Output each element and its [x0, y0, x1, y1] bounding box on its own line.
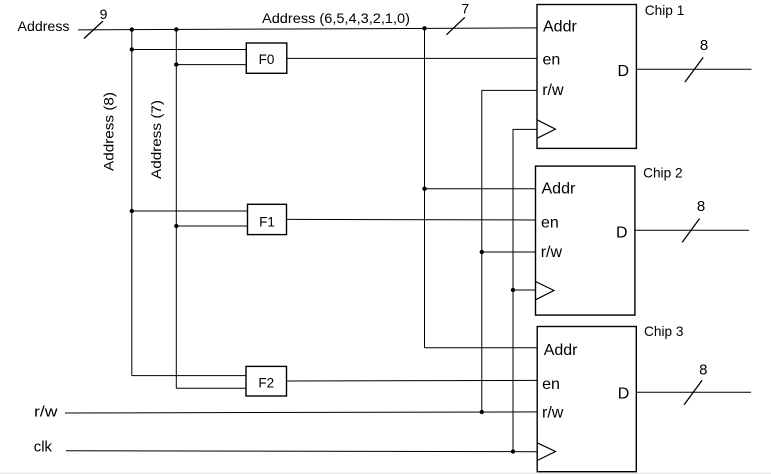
- junction dot r/w bus bottom: [480, 410, 484, 414]
- wire r/w main horizontal: [65, 412, 537, 413]
- decoder box F0: [246, 43, 286, 73]
- decoder box F1: [248, 204, 287, 234]
- wire F1 top input: [132, 210, 248, 212]
- svg-text:Addr: Addr: [543, 18, 577, 35]
- wire clk to Chip2: [513, 289, 536, 291]
- svg-text:en: en: [543, 52, 561, 69]
- wire D output Chip2: [635, 229, 749, 231]
- bus slash 8 chip2: [682, 219, 699, 243]
- svg-text:Address (6,5,4,3,2,1,0): Address (6,5,4,3,2,1,0): [262, 11, 410, 27]
- wire Addr to Chip3: [425, 347, 538, 349]
- wire vertical 7-bit address bus x=424.5: [424, 28, 426, 347]
- bus slash 9: [84, 21, 103, 39]
- svg-text:F1: F1: [259, 215, 275, 230]
- wire main address bus horizontal: [78, 28, 537, 30]
- wire clk to Chip1: [513, 128, 538, 130]
- wire F1 output to Chip2 en: [287, 218, 536, 221]
- wire vertical Address(7) bus x=176.3: [175, 29, 177, 388]
- svg-text:r/w: r/w: [542, 404, 564, 421]
- wire D output Chip3: [636, 391, 751, 393]
- svg-text:D: D: [618, 385, 630, 402]
- svg-text:8: 8: [700, 37, 708, 54]
- wire r/w vertical bus x=481.8: [481, 90, 483, 412]
- svg-text:Address: Address: [18, 19, 70, 34]
- wire F0 bottom input: [176, 64, 246, 66]
- wire F2 output to Chip3 en: [287, 379, 538, 382]
- svg-text:9: 9: [100, 6, 108, 22]
- junction dot F1 top input: [130, 209, 134, 213]
- junction dot main bus x=131.8: [130, 27, 134, 31]
- svg-text:r/w: r/w: [541, 244, 563, 261]
- wire F0 output to Chip1 en: [287, 57, 537, 59]
- wire F0 top input: [132, 49, 247, 51]
- svg-text:clk: clk: [34, 439, 53, 455]
- svg-text:en: en: [541, 214, 559, 231]
- svg-text:D: D: [616, 225, 628, 242]
- decoder box F2: [246, 366, 287, 396]
- wire D output Chip1: [636, 68, 751, 70]
- wire r/w to Chip1: [481, 89, 537, 91]
- wire F2 top input: [132, 375, 246, 377]
- bottom edge light rule: [0, 473, 771, 474]
- wire vertical Address(8) bus x=131.8: [131, 29, 133, 375]
- svg-text:Addr: Addr: [544, 342, 578, 359]
- junction dot clk to chip2: [511, 288, 515, 292]
- junction dot F0 bottom input: [174, 62, 178, 66]
- wire r/w to Chip2: [482, 251, 536, 253]
- svg-text:F0: F0: [259, 52, 275, 67]
- svg-text:8: 8: [697, 198, 705, 215]
- clock triangle U1: [537, 120, 555, 139]
- wire F2 bottom input: [176, 387, 246, 389]
- bus slash 8 chip3: [684, 380, 702, 404]
- junction dot main bus x=424.5: [422, 26, 426, 30]
- svg-text:Address (8): Address (8): [101, 92, 117, 171]
- clock triangle U2: [536, 282, 554, 300]
- memory chip U3 box: [537, 327, 636, 472]
- svg-text:7: 7: [461, 1, 469, 17]
- svg-text:F2: F2: [258, 376, 274, 391]
- junction dot F0 top input: [130, 47, 134, 51]
- junction dot main bus x=176.3: [174, 27, 178, 31]
- svg-text:Address (7): Address (7): [148, 100, 164, 179]
- wire clk vertical bus x=513: [512, 129, 514, 451]
- memory chip U1 box: [537, 5, 636, 149]
- svg-text:r/w: r/w: [542, 82, 564, 99]
- junction dot F1 bottom input: [174, 224, 178, 228]
- svg-text:Chip 1: Chip 1: [645, 2, 685, 18]
- bus slash 8 chip1: [685, 57, 703, 82]
- wire F1 bottom input: [176, 225, 247, 227]
- junction dot clk bus bottom: [511, 449, 515, 453]
- svg-text:Chip 3: Chip 3: [644, 323, 684, 339]
- svg-text:D: D: [618, 63, 630, 80]
- svg-text:Addr: Addr: [542, 181, 576, 198]
- wire Addr to Chip2: [425, 188, 536, 190]
- svg-text:8: 8: [699, 362, 707, 379]
- wire clk main horizontal: [66, 450, 537, 453]
- bus slash 7: [446, 17, 464, 34]
- junction dot r/w to chip2: [480, 250, 484, 254]
- svg-text:Chip 2: Chip 2: [643, 165, 683, 181]
- clock triangle U3: [537, 443, 555, 461]
- junction dot Addr to chip2: [422, 187, 426, 191]
- memory chip U2 box: [536, 166, 635, 315]
- svg-text:en: en: [542, 376, 560, 393]
- svg-text:r/w: r/w: [34, 404, 58, 420]
